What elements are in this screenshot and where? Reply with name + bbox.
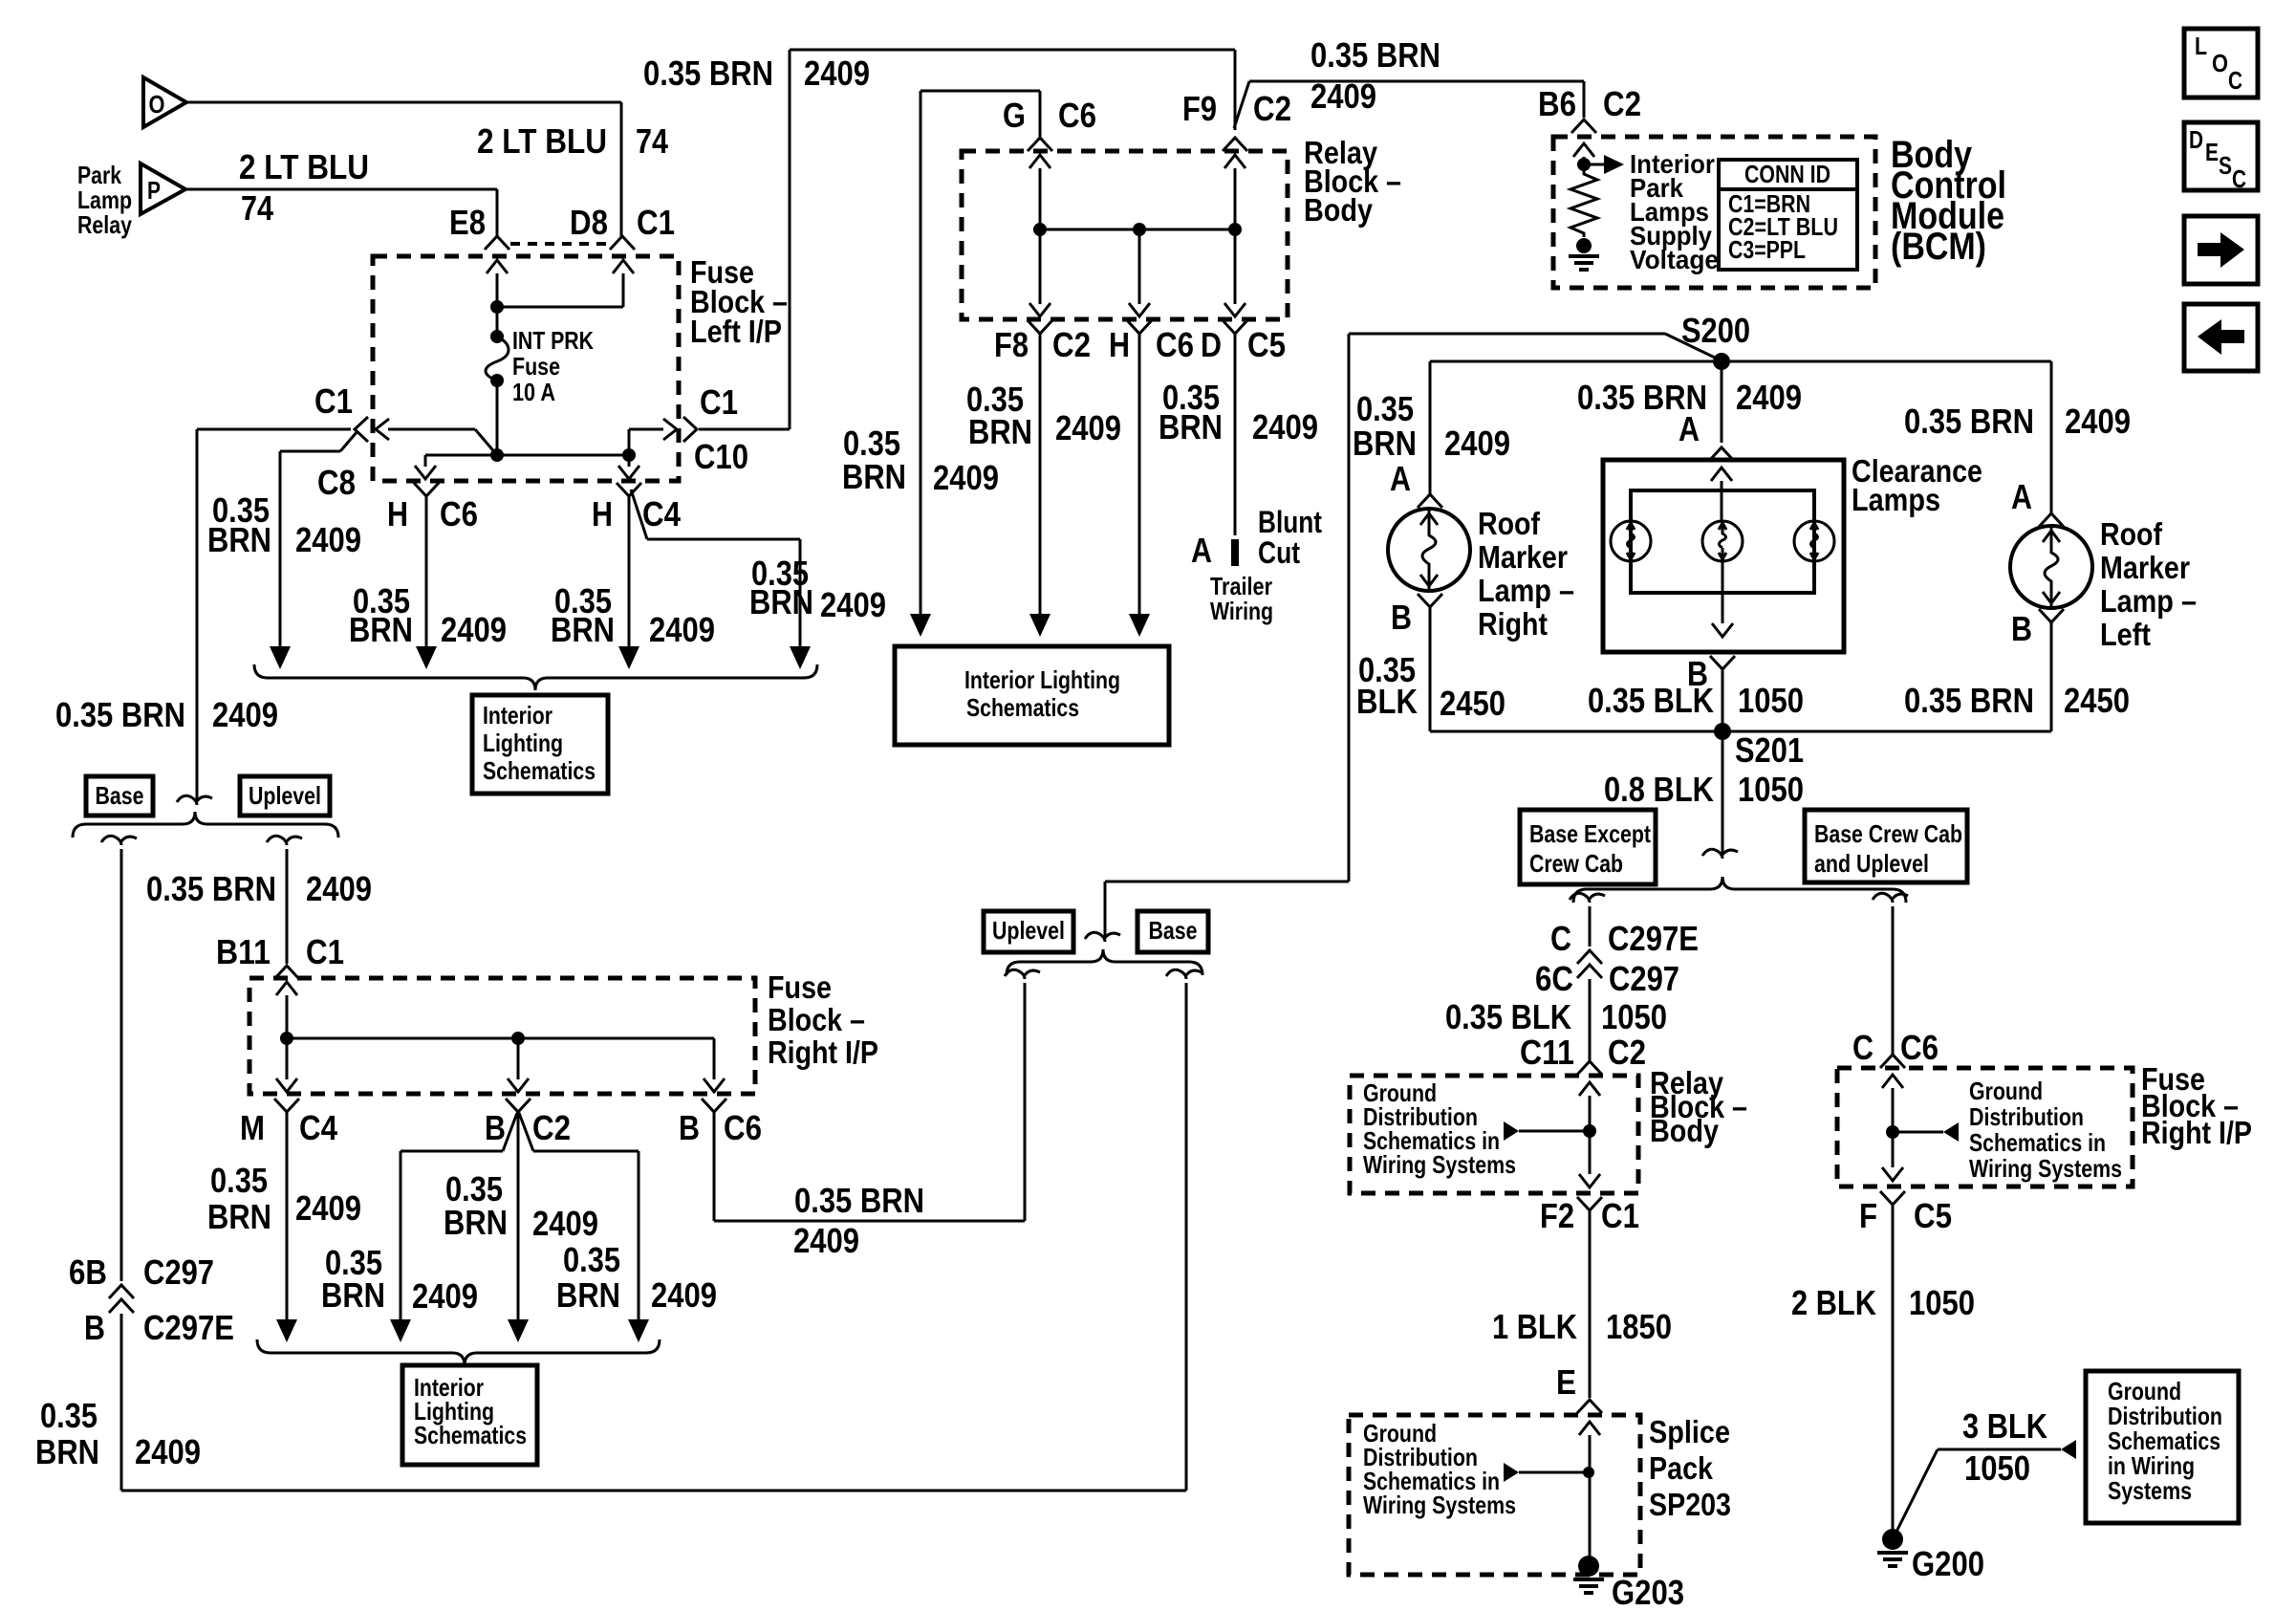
svg-text:1050: 1050 bbox=[1964, 1448, 2030, 1488]
svg-text:BRN: BRN bbox=[842, 457, 906, 496]
pin B clearance lamps bbox=[1710, 656, 1735, 669]
pin A roof marker left bbox=[2039, 513, 2064, 527]
svg-text:C6: C6 bbox=[1156, 325, 1194, 364]
svg-text:BRN: BRN bbox=[207, 520, 271, 559]
wire G feed from ILS run bbox=[921, 91, 1040, 138]
svg-text:2409: 2409 bbox=[1055, 408, 1121, 447]
svg-text:H: H bbox=[387, 494, 408, 533]
svg-text:Wiring: Wiring bbox=[1210, 597, 1273, 625]
svg-text:2450: 2450 bbox=[1440, 684, 1505, 723]
wire to C2 exit bbox=[508, 1038, 529, 1092]
pin B / C2 bbox=[485, 1099, 571, 1147]
svg-text:S: S bbox=[2219, 151, 2232, 180]
roof marker lamp left label bbox=[2100, 516, 2197, 652]
pin D8 / connector C1 of fuse block left I/P bbox=[570, 203, 675, 250]
option box Base Except Crew Cab bbox=[1520, 810, 1656, 884]
splice pack SP203 label bbox=[1649, 1414, 1731, 1522]
brace crew cab split bbox=[1573, 877, 1906, 903]
svg-text:C1: C1 bbox=[314, 381, 353, 421]
splice S201 bbox=[1714, 723, 1804, 770]
pin D / C5 below relay block bbox=[1201, 320, 1286, 364]
svg-text:Roof: Roof bbox=[2100, 516, 2163, 552]
svg-text:C: C bbox=[2232, 164, 2246, 193]
svg-text:C2: C2 bbox=[1608, 1033, 1646, 1072]
label 0.35 BRN / 2409 (top run) bbox=[643, 54, 870, 93]
svg-text:2409: 2409 bbox=[820, 585, 886, 624]
svg-text:Crew Cab: Crew Cab bbox=[1529, 849, 1623, 878]
clearance inner bus rect bbox=[1631, 490, 1814, 593]
svg-text:10 A: 10 A bbox=[512, 378, 555, 406]
svg-text:S200: S200 bbox=[1681, 311, 1750, 350]
brace collecting interior lighting wires (right IP) bbox=[257, 1339, 660, 1365]
label C C6 connector bbox=[1852, 1028, 1939, 1067]
svg-text:C4: C4 bbox=[299, 1108, 337, 1147]
wire S200 to right roof marker lamp bbox=[1430, 361, 1713, 494]
svg-text:D: D bbox=[2189, 125, 2203, 154]
wire C11 entry arrow bbox=[1579, 1082, 1600, 1187]
svg-text:H: H bbox=[592, 494, 613, 533]
interior lighting schematics box (middle) bbox=[895, 646, 1169, 745]
svg-text:D8: D8 bbox=[570, 203, 608, 242]
wire D/C5 drop to blunt cut bbox=[1234, 334, 1237, 535]
wire clearance B to S201 bbox=[1722, 669, 1724, 731]
svg-text:2409: 2409 bbox=[295, 1188, 361, 1228]
svg-text:B6: B6 bbox=[1538, 84, 1576, 123]
icon box forward arrow bbox=[2184, 216, 2258, 284]
label B (roof left) bbox=[2011, 609, 2032, 648]
svg-text:F: F bbox=[1859, 1196, 1877, 1235]
svg-text:B: B bbox=[679, 1108, 700, 1147]
svg-text:0.35 BLK: 0.35 BLK bbox=[1445, 997, 1571, 1036]
blunt cut bar bbox=[1231, 539, 1239, 566]
svg-text:0.35: 0.35 bbox=[210, 1161, 268, 1200]
svg-text:F2: F2 bbox=[1540, 1196, 1574, 1235]
svg-text:Base Crew Cab: Base Crew Cab bbox=[1814, 819, 1962, 848]
svg-text:C297: C297 bbox=[1609, 959, 1679, 998]
ground dot in BCM bbox=[1576, 238, 1592, 253]
svg-text:H: H bbox=[1109, 325, 1130, 364]
roof marker lamp right label bbox=[1478, 506, 1574, 642]
svg-text:C2: C2 bbox=[532, 1108, 571, 1147]
svg-text:6B: 6B bbox=[69, 1252, 107, 1292]
svg-text:2 BLK: 2 BLK bbox=[1791, 1283, 1876, 1322]
svg-text:2409: 2409 bbox=[135, 1432, 201, 1471]
ground reference arrow (relay lower) bbox=[1504, 1121, 1585, 1141]
label 0.8 BLK / 1050 (S201 down) bbox=[1604, 770, 1804, 809]
pin H / C6 below relay block bbox=[1109, 320, 1194, 364]
svg-text:BRN: BRN bbox=[35, 1432, 99, 1471]
svg-text:Lamp –: Lamp – bbox=[2100, 583, 2197, 619]
connector triangle O (output to park lamp circuit) bbox=[143, 77, 186, 127]
connector triangle P (park lamp relay) bbox=[141, 163, 185, 214]
svg-text:2409: 2409 bbox=[649, 610, 715, 649]
svg-text:C8: C8 bbox=[317, 463, 356, 502]
svg-text:Marker: Marker bbox=[1478, 539, 1568, 575]
brace collecting interior lighting wires (left) bbox=[254, 664, 817, 690]
label 0.35 BRN / 2409 (C4 wire) bbox=[551, 581, 715, 649]
reference arrow to interior park lamps text bbox=[1584, 155, 1624, 174]
svg-text:C5: C5 bbox=[1247, 325, 1286, 364]
svg-text:BRN: BRN bbox=[1159, 407, 1223, 446]
svg-text:C297: C297 bbox=[143, 1252, 214, 1292]
wire 3 BLK branch diagonal bbox=[1896, 1449, 2061, 1532]
svg-text:Marker: Marker bbox=[2100, 550, 2190, 585]
wire Base branch hook bbox=[101, 836, 137, 1281]
label INT PRK Fuse 10 A bbox=[512, 326, 594, 406]
wire B6 entry arrow bbox=[1573, 143, 1594, 168]
pin C1 left exit of fuse block bbox=[314, 381, 389, 442]
label C1 (right side) bbox=[694, 382, 748, 476]
wire C1 exit to Base/Uplevel drop bbox=[197, 428, 351, 431]
clearance lamp bulb right bbox=[1794, 521, 1834, 561]
wire S201 down to split bbox=[1702, 740, 1738, 859]
svg-text:B: B bbox=[485, 1108, 506, 1147]
wire Uplevel branch hook bbox=[267, 836, 302, 964]
pin F9 / C2 of relay block bbox=[1182, 89, 1291, 151]
pin E of splice pack bbox=[1577, 1400, 1602, 1413]
wire F2 to splice pack bbox=[1589, 1210, 1592, 1398]
svg-text:1050: 1050 bbox=[1909, 1283, 1975, 1322]
svg-text:Body: Body bbox=[1650, 1113, 1720, 1148]
svg-text:Roof: Roof bbox=[1478, 506, 1541, 541]
option box Uplevel bbox=[240, 776, 330, 816]
wire C297 to relay block body bbox=[1589, 979, 1592, 1061]
wire H drop with arrow bbox=[1129, 334, 1150, 637]
junction dot fuse right bbox=[1886, 1125, 1899, 1139]
label Blunt Cut bbox=[1258, 505, 1322, 570]
label 0.35 BRN / 2409 (C6 branch) bbox=[793, 1181, 924, 1260]
label 0.35 BRN / 2409 (C2 center) bbox=[444, 1169, 598, 1243]
label 0.35 BRN / 2409 (B11 wire) bbox=[146, 869, 372, 908]
label 1 BLK / 1850 bbox=[1492, 1307, 1672, 1346]
option box Base (middle) bbox=[1137, 911, 1208, 952]
wire diagonal F9 to BCM run bbox=[1234, 81, 1249, 128]
svg-text:0.35 BRN: 0.35 BRN bbox=[146, 869, 276, 908]
relay block body label bbox=[1304, 135, 1401, 228]
svg-text:C6: C6 bbox=[724, 1108, 762, 1147]
wire C1 left drop to split bbox=[177, 429, 212, 805]
svg-text:2 LT BLU: 2 LT BLU bbox=[239, 147, 369, 186]
wire C6 entry arrow bbox=[1882, 1075, 1903, 1181]
label Interior Park Lamps Supply Voltage bbox=[1630, 149, 1719, 274]
wire down to F9 pin bbox=[1234, 50, 1237, 130]
svg-text:2 LT BLU: 2 LT BLU bbox=[477, 121, 607, 161]
wire left split branch hook bbox=[1570, 893, 1605, 947]
svg-text:Ground: Ground bbox=[1969, 1077, 2043, 1105]
svg-text:A: A bbox=[2011, 477, 2032, 516]
svg-text:0.35 BRN: 0.35 BRN bbox=[643, 54, 773, 93]
wire C2 right branch with arrow bbox=[533, 1151, 649, 1342]
wire from triangle O to D8 drop bbox=[186, 101, 621, 104]
svg-text:2409: 2409 bbox=[804, 54, 870, 93]
label H C4 pin bbox=[592, 494, 681, 533]
pin E8 of fuse block left I/P bbox=[449, 203, 509, 250]
pin F2 / C1 bbox=[1540, 1196, 1639, 1235]
svg-text:B11: B11 bbox=[216, 932, 271, 971]
svg-text:G: G bbox=[1003, 96, 1026, 135]
reference arrow to ground distribution box bbox=[2061, 1440, 2076, 1459]
svg-text:Right: Right bbox=[1478, 606, 1548, 642]
svg-text:G203: G203 bbox=[1612, 1573, 1684, 1611]
pin B roof marker left bbox=[2039, 609, 2064, 622]
clearance lamps box bbox=[1603, 460, 1844, 652]
wire ILS feed (G branch) bbox=[910, 91, 931, 637]
svg-text:O: O bbox=[149, 90, 165, 119]
svg-text:74: 74 bbox=[241, 188, 273, 228]
label 0.35 BRN / 2409 (roof left feed) bbox=[1904, 402, 2131, 441]
label 2 LT BLU / 74 (wire 74 at D8) bbox=[477, 121, 668, 161]
label 0.35 BRN / 2409 (C6 wire) bbox=[349, 581, 507, 649]
svg-text:C1: C1 bbox=[637, 203, 675, 242]
wire fuse to junction bbox=[490, 381, 504, 462]
wire internal bus of fuse block left bbox=[425, 448, 636, 462]
svg-text:BRN: BRN bbox=[1353, 424, 1417, 463]
wire to C4 exit with arrow bbox=[618, 455, 639, 479]
svg-text:Uplevel: Uplevel bbox=[992, 916, 1065, 945]
pin B6 / C2 of BCM bbox=[1538, 84, 1641, 133]
svg-text:Wiring Systems: Wiring Systems bbox=[1363, 1491, 1516, 1519]
wire H/C4 drop with arrow bbox=[617, 483, 641, 669]
svg-text:BRN: BRN bbox=[968, 412, 1032, 451]
wire B/C2 center drop with arrow bbox=[508, 1112, 529, 1342]
wire to BCM B6 bbox=[1249, 81, 1584, 118]
wire from S200 run down to split bbox=[1085, 882, 1349, 942]
svg-text:A: A bbox=[1191, 531, 1212, 570]
svg-text:BRN: BRN bbox=[349, 610, 413, 649]
svg-text:Cut: Cut bbox=[1258, 535, 1300, 570]
svg-text:2409: 2409 bbox=[1310, 76, 1376, 116]
label A at blunt cut bbox=[1191, 531, 1212, 570]
svg-text:74: 74 bbox=[636, 121, 668, 161]
label A (roof left) bbox=[2011, 477, 2032, 516]
ground reference arrow (splice pack) bbox=[1504, 1463, 1594, 1482]
svg-text:C: C bbox=[2228, 66, 2242, 95]
wire to H/C6 exit bbox=[1129, 229, 1150, 316]
svg-text:0.35: 0.35 bbox=[40, 1396, 97, 1435]
svg-text:BRN: BRN bbox=[207, 1197, 271, 1236]
svg-text:Lamp –: Lamp – bbox=[1478, 573, 1574, 608]
svg-text:2409: 2409 bbox=[532, 1204, 598, 1243]
junction dot BCM bbox=[1577, 158, 1591, 171]
svg-text:CONN ID: CONN ID bbox=[1744, 160, 1830, 188]
svg-text:Wiring Systems: Wiring Systems bbox=[1363, 1150, 1516, 1179]
svg-text:and Uplevel: and Uplevel bbox=[1814, 849, 1929, 878]
svg-text:Distribution: Distribution bbox=[1969, 1102, 2084, 1131]
label ground distribution (relay lower) bbox=[1363, 1078, 1516, 1179]
svg-text:C6: C6 bbox=[1900, 1028, 1939, 1067]
svg-text:2409: 2409 bbox=[412, 1276, 478, 1316]
wire C1 right to top run bbox=[699, 428, 790, 431]
pin G / C6 of relay block bbox=[1003, 96, 1096, 151]
svg-text:C2: C2 bbox=[1603, 84, 1641, 123]
svg-text:Interior: Interior bbox=[483, 701, 552, 729]
svg-text:BRN: BRN bbox=[444, 1203, 508, 1242]
svg-text:C1: C1 bbox=[306, 932, 344, 971]
clearance exit arrow bbox=[1712, 561, 1733, 637]
svg-text:0.35 BRN: 0.35 BRN bbox=[1310, 35, 1440, 75]
svg-text:C6: C6 bbox=[1058, 96, 1096, 135]
label 0.35 BRN / 2409 (C2 right branch) bbox=[556, 1240, 717, 1315]
relay block body (lower) label bbox=[1650, 1065, 1747, 1148]
svg-text:A: A bbox=[1679, 409, 1700, 448]
svg-text:C297E: C297E bbox=[1608, 919, 1699, 958]
wire E8 entry with arrow bbox=[487, 260, 508, 307]
label 2 LT BLU / 74 (wire 74 at E8) bbox=[239, 147, 369, 228]
label ground distribution (fuse right) bbox=[1969, 1077, 2122, 1183]
svg-text:1 BLK: 1 BLK bbox=[1492, 1307, 1577, 1346]
svg-text:(BCM): (BCM) bbox=[1891, 226, 1986, 268]
label 0.35 BRN / 2409 (F8 wire) bbox=[966, 380, 1121, 451]
svg-text:Lighting: Lighting bbox=[483, 729, 563, 757]
wire to C1 right exit bbox=[629, 417, 697, 455]
svg-text:Schematics: Schematics bbox=[483, 756, 596, 785]
label A (roof right) bbox=[1390, 459, 1411, 498]
label 0.35 BRN / 2450 (roof left gnd) bbox=[1904, 681, 2130, 720]
fuse block right I/P ground dashed box bbox=[1837, 1068, 2133, 1186]
option box Uplevel (middle) bbox=[984, 911, 1073, 952]
wire H/C6 drop with arrow bbox=[414, 483, 439, 669]
svg-text:Right I/P: Right I/P bbox=[768, 1034, 878, 1070]
body control module label bbox=[1891, 134, 2006, 268]
svg-text:2409: 2409 bbox=[1736, 378, 1802, 417]
label 0.35 BRN / 2409 (H wire) bbox=[1159, 378, 1318, 446]
svg-text:0.35 BRN: 0.35 BRN bbox=[1904, 402, 2034, 441]
svg-text:Schematics: Schematics bbox=[414, 1421, 527, 1449]
label 0.35 BRN / 2409 (G branch) bbox=[842, 424, 999, 497]
pin C11 / C2 of relay block body bbox=[1520, 1033, 1646, 1075]
node Park Lamp Relay label bbox=[77, 161, 132, 239]
wire S200 to left roof marker lamp bbox=[1730, 361, 2051, 513]
relay block - body dashed box bbox=[962, 151, 1288, 319]
svg-text:Left I/P: Left I/P bbox=[690, 314, 782, 349]
roof marker lamp right bulb bbox=[1388, 509, 1470, 591]
ground distribution schematics box bbox=[2086, 1371, 2239, 1523]
svg-text:Wiring Systems: Wiring Systems bbox=[1969, 1154, 2122, 1183]
label 0.35 BRN / 2409 (branch wire) bbox=[749, 554, 886, 624]
svg-text:C297E: C297E bbox=[143, 1308, 234, 1347]
svg-text:L: L bbox=[2195, 32, 2207, 60]
label 0.35 BRN / 2409 (bottom run) bbox=[35, 1396, 201, 1471]
ground reference arrow (fuse right) bbox=[1893, 1122, 1959, 1142]
svg-text:Block –: Block – bbox=[768, 1002, 865, 1037]
svg-text:2409: 2409 bbox=[651, 1275, 717, 1315]
label 0.35 BLK / 1050 (clearance gnd) bbox=[1588, 681, 1804, 720]
wire from triangle P to E8 drop bbox=[185, 189, 497, 236]
svg-text:3 BLK: 3 BLK bbox=[1962, 1406, 2047, 1446]
wire C8 drop with arrow bbox=[270, 451, 291, 669]
svg-text:G200: G200 bbox=[1912, 1544, 1984, 1583]
svg-text:F9: F9 bbox=[1182, 89, 1217, 128]
label 0.35 BRN / 2409 (C2 left branch) bbox=[321, 1243, 478, 1316]
svg-text:2409: 2409 bbox=[793, 1221, 859, 1260]
wire right split branch hook bbox=[1873, 893, 1908, 1055]
label 0.35 BRN / 2409 (clearance feed) bbox=[1577, 378, 1802, 417]
label 2 BLK / 1050 bbox=[1791, 1283, 1975, 1322]
svg-text:2409: 2409 bbox=[1252, 407, 1318, 446]
wire below C297E to bottom run bbox=[121, 1314, 1186, 1491]
label 0.35 BRN / 2409 (BCM feed) bbox=[1310, 35, 1440, 116]
svg-text:1050: 1050 bbox=[1601, 997, 1667, 1036]
svg-text:S201: S201 bbox=[1735, 730, 1804, 770]
icon box back arrow bbox=[2184, 304, 2258, 371]
splice pack SP203 dashed box bbox=[1349, 1415, 1640, 1575]
svg-text:E: E bbox=[1556, 1362, 1576, 1402]
svg-text:D: D bbox=[1201, 325, 1222, 364]
roof marker lamp left bulb bbox=[2010, 526, 2092, 608]
wire S200 down to clearance lamps bbox=[1721, 370, 1723, 443]
wire internal bus right I/P bbox=[287, 1032, 714, 1045]
label B C297E connector bbox=[84, 1308, 234, 1347]
fuse block - left I/P dashed box bbox=[373, 256, 679, 481]
svg-text:C11: C11 bbox=[1520, 1033, 1574, 1072]
svg-text:F8: F8 bbox=[994, 325, 1029, 364]
svg-text:C5: C5 bbox=[1914, 1196, 1952, 1235]
wire to C6 exit with arrow bbox=[415, 455, 436, 479]
svg-text:Fuse: Fuse bbox=[768, 969, 832, 1005]
svg-text:Interior Lighting: Interior Lighting bbox=[964, 665, 1120, 694]
fuse block - right I/P dashed box bbox=[249, 978, 755, 1094]
pin C / C6 of fuse block right I/P bbox=[1880, 1055, 1905, 1068]
interior lighting schematics box (left) bbox=[472, 695, 608, 794]
svg-text:6C: 6C bbox=[1535, 959, 1573, 998]
wire D8 entry with arrow bbox=[613, 260, 634, 307]
wire roof right B to ground bus bbox=[1429, 607, 1432, 731]
label B (roof right) bbox=[1391, 598, 1412, 637]
wire B/C6 branch to Uplevel bbox=[714, 983, 1025, 1221]
svg-text:2450: 2450 bbox=[2064, 681, 2130, 720]
pin C8 wire diagonal bbox=[280, 431, 357, 502]
svg-text:C3=PPL: C3=PPL bbox=[1728, 235, 1806, 264]
svg-text:C10: C10 bbox=[694, 437, 748, 476]
svg-text:0.35: 0.35 bbox=[1356, 389, 1414, 428]
svg-text:SP203: SP203 bbox=[1649, 1487, 1731, 1522]
pin B / C6 bbox=[679, 1099, 762, 1147]
interior lighting schematics box (lower) bbox=[402, 1365, 537, 1465]
svg-text:A: A bbox=[1390, 459, 1411, 498]
fuse block right I/P (ground) label bbox=[2141, 1061, 2252, 1150]
option box Base bbox=[86, 776, 153, 816]
svg-text:Lamps: Lamps bbox=[1852, 482, 1940, 517]
svg-text:C6: C6 bbox=[440, 494, 478, 533]
svg-text:2409: 2409 bbox=[441, 610, 507, 649]
wire C1 internal diagonal bbox=[388, 429, 497, 455]
pin A clearance lamps bbox=[1709, 447, 1734, 461]
fuse block right I/P label bbox=[768, 969, 878, 1070]
svg-text:0.35 BRN: 0.35 BRN bbox=[55, 695, 185, 734]
svg-text:Splice: Splice bbox=[1649, 1414, 1730, 1449]
svg-text:Schematics in: Schematics in bbox=[1969, 1128, 2106, 1157]
label A (clearance) bbox=[1679, 409, 1700, 448]
svg-text:Base: Base bbox=[1149, 916, 1198, 945]
ground symbol in BCM bbox=[1569, 256, 1599, 270]
label 0.35 BLK / 1050 (to G203) bbox=[1445, 997, 1667, 1036]
icon box DESC bbox=[2184, 122, 2258, 193]
svg-text:C: C bbox=[1852, 1028, 1874, 1067]
svg-text:Schematics: Schematics bbox=[966, 693, 1079, 722]
svg-text:O: O bbox=[2212, 49, 2228, 77]
svg-text:C4: C4 bbox=[642, 494, 681, 533]
label 6B C297 connector bbox=[69, 1252, 214, 1292]
body control module dashed box bbox=[1553, 137, 1875, 288]
svg-text:0.35 BRN: 0.35 BRN bbox=[1904, 681, 2034, 720]
label H C6 pin bbox=[387, 494, 478, 533]
svg-text:Systems: Systems bbox=[2108, 1476, 2192, 1505]
wire F8 drop with arrow bbox=[1029, 334, 1051, 637]
fuse block left I/P label bbox=[690, 254, 788, 349]
brace base/uplevel split bbox=[73, 812, 338, 838]
svg-text:0.35: 0.35 bbox=[563, 1240, 620, 1279]
svg-text:C1: C1 bbox=[700, 382, 738, 422]
